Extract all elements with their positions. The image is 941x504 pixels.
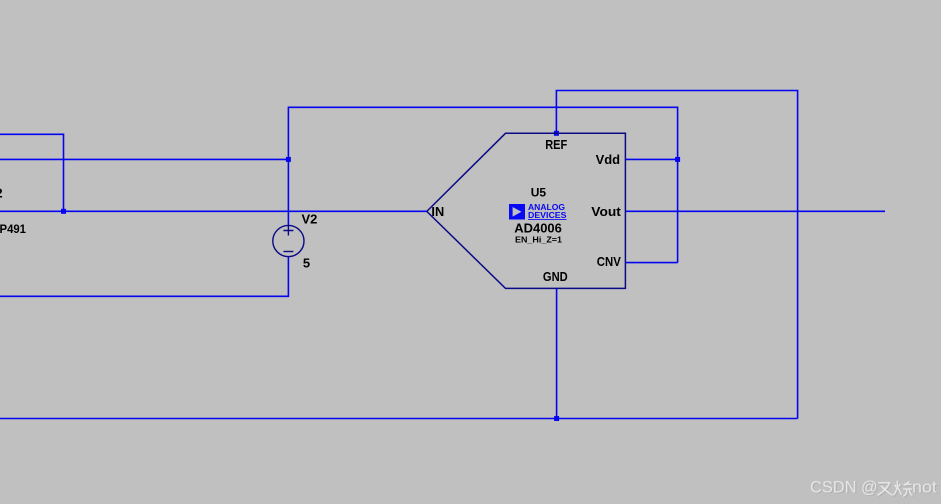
svg-text:2: 2 [0, 186, 3, 201]
svg-text:GND: GND [543, 270, 568, 284]
svg-text:IN: IN [431, 204, 444, 219]
svg-text:CSDN @: CSDN @ [810, 478, 878, 496]
svg-text:REF: REF [545, 138, 567, 152]
svg-text:V2: V2 [302, 212, 318, 227]
svg-text:DEVICES: DEVICES [528, 210, 567, 220]
svg-text:EN_Hi_Z=1: EN_Hi_Z=1 [515, 236, 562, 245]
svg-text:Vout: Vout [591, 204, 621, 219]
svg-text:AD4006: AD4006 [514, 220, 562, 235]
svg-text:Vdd: Vdd [596, 152, 621, 167]
svg-text:U5: U5 [531, 186, 547, 200]
svg-text:not: not [912, 478, 937, 496]
svg-text:5: 5 [303, 256, 310, 271]
svg-text:P491: P491 [0, 222, 26, 236]
svg-text:CNV: CNV [597, 255, 622, 269]
